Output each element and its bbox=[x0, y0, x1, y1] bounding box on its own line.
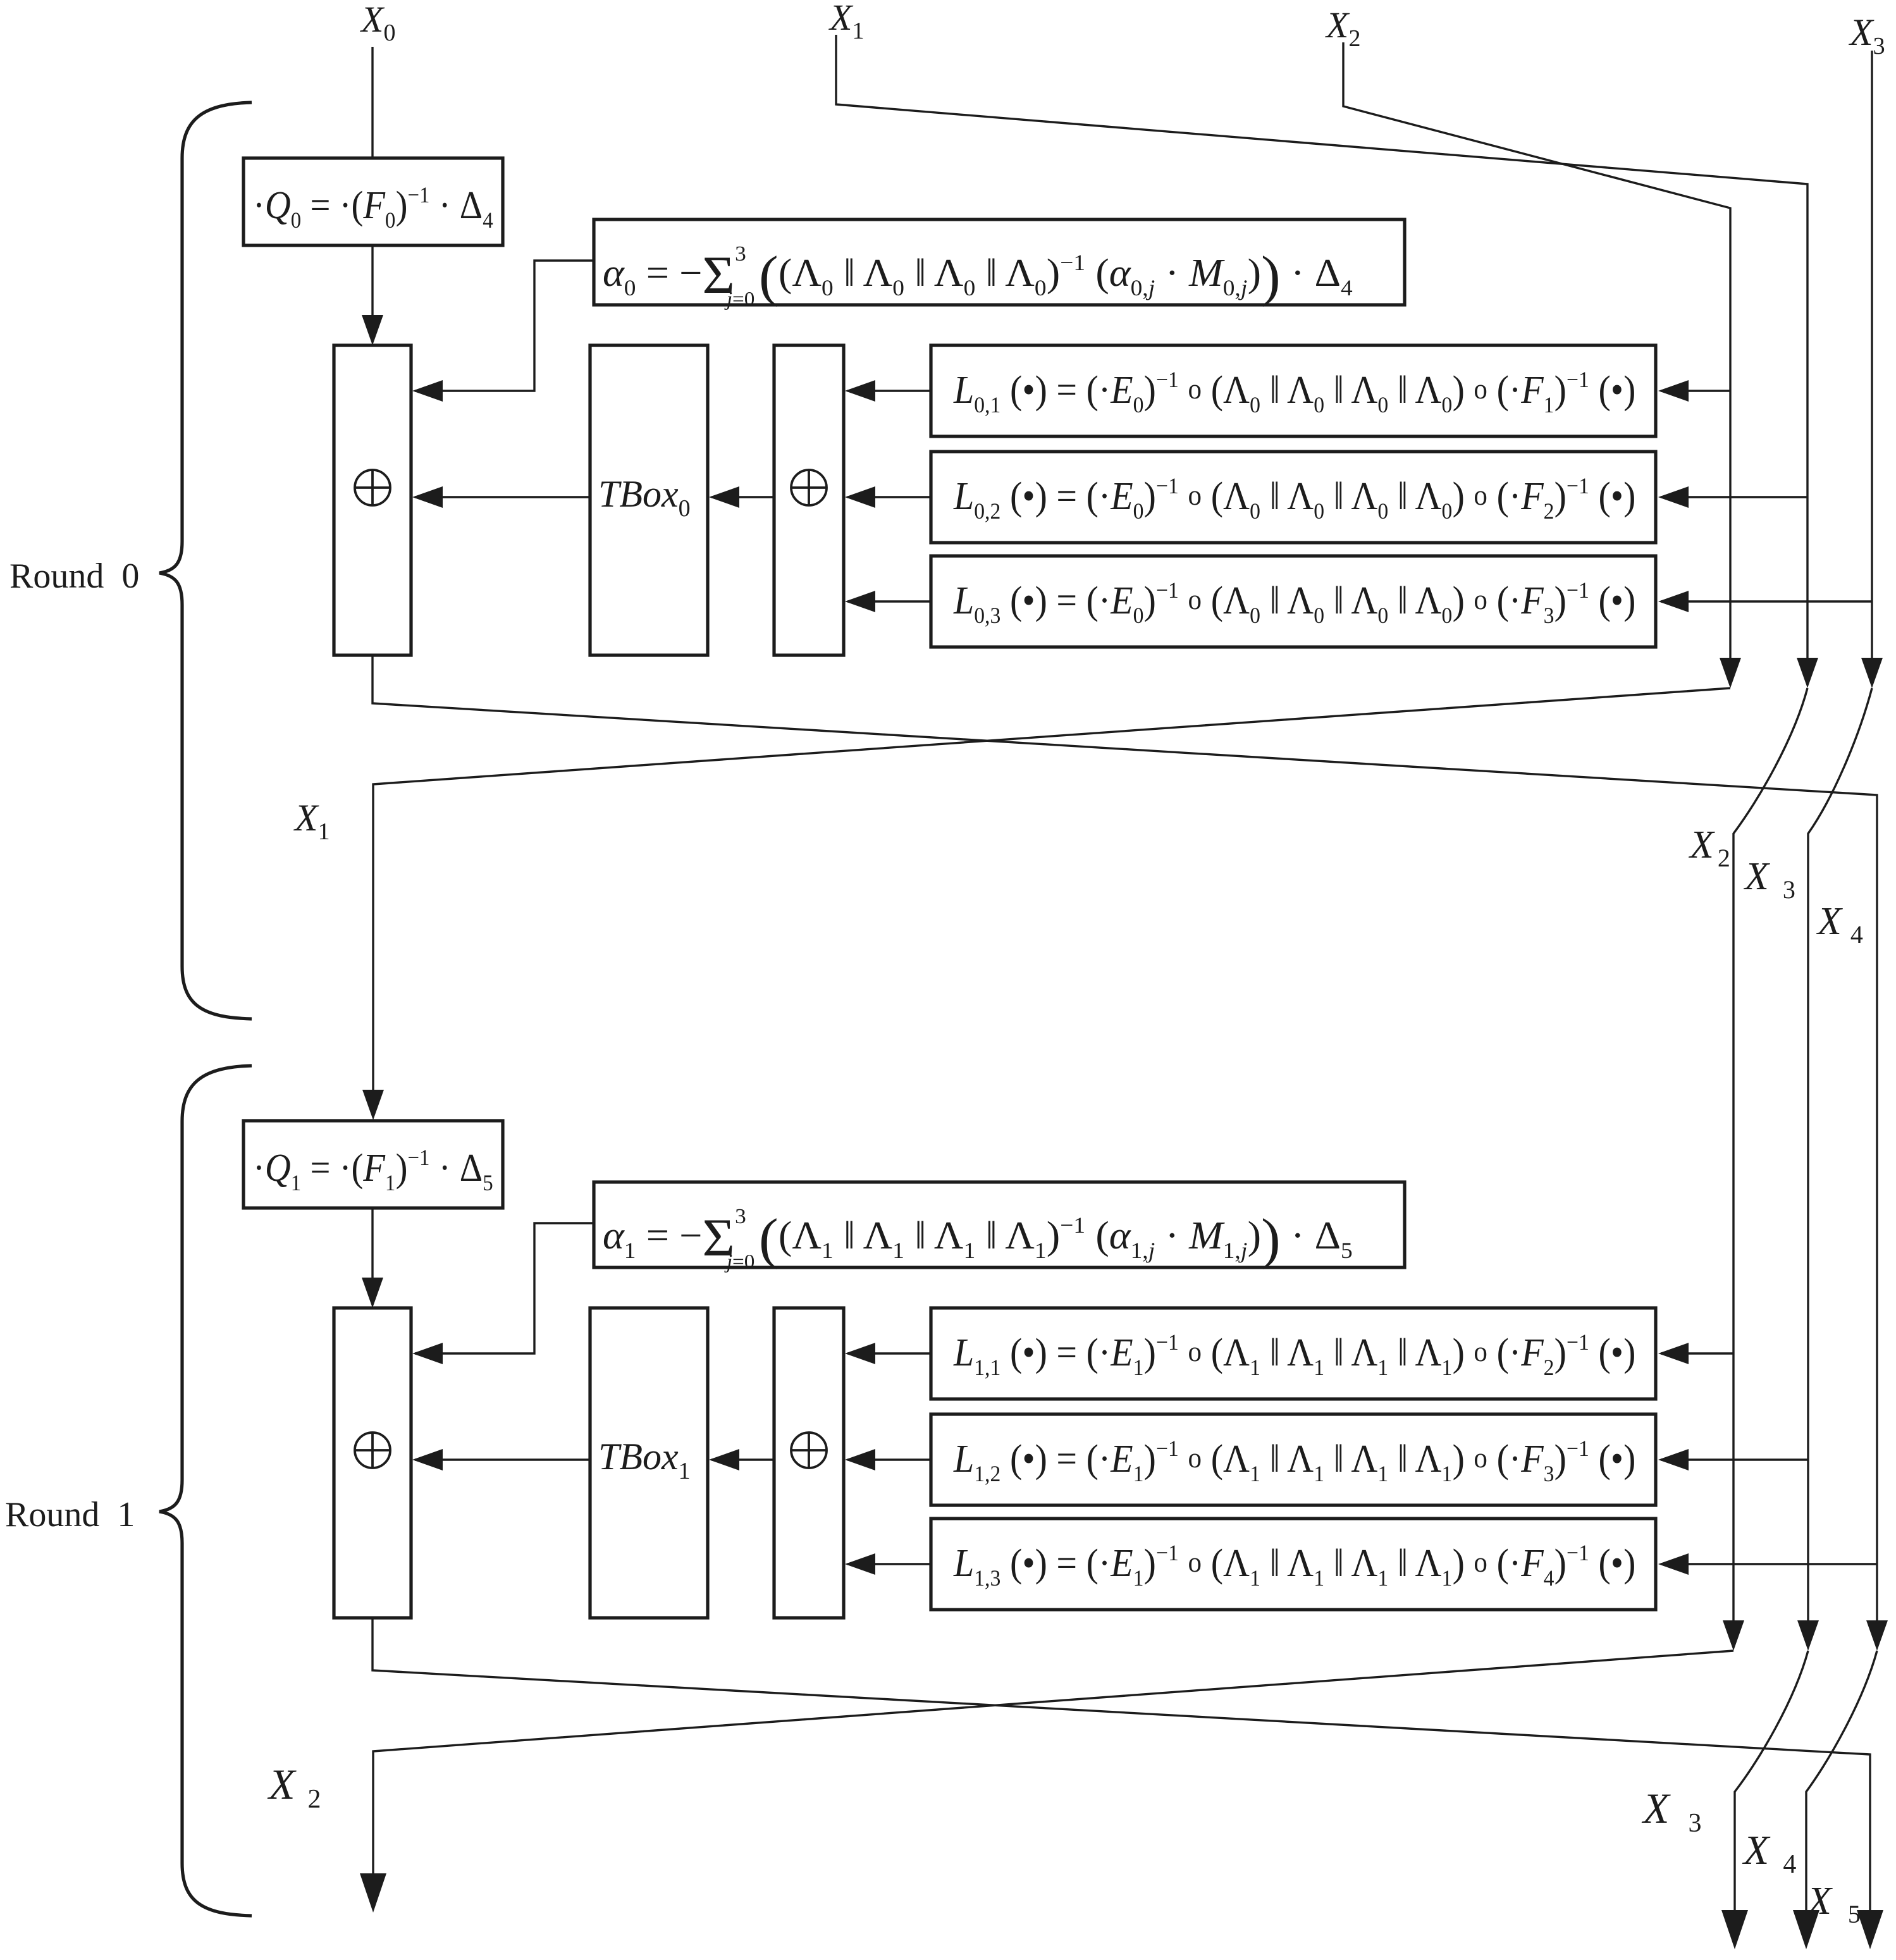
svg-text:·Q1 = ·(F1 )−1 · Δ5: ·Q1 = ·(F1 )−1 · Δ5 bbox=[253, 1145, 493, 1196]
xor column 2 R1 bbox=[774, 1308, 844, 1618]
svg-text:L0,1 (•) = (·E0 )−1 o (Λ0: L0,1 (•) = (·E0 )−1 o (Λ0 ‖ Λ0 ‖ Λ0 ‖ Λ0… bbox=[953, 367, 1635, 417]
wire input column to L0,2 bbox=[1661, 496, 1807, 498]
svg-text:Round 0: Round 0 bbox=[9, 557, 139, 596]
wire input column to L1,3 bbox=[1661, 1563, 1877, 1565]
box alpha1 formula bbox=[594, 1182, 1405, 1267]
wire L1,3 to xor column 2 bbox=[847, 1563, 931, 1565]
wire input column to L1,2 bbox=[1661, 1458, 1808, 1460]
box L0,1 formula bbox=[931, 345, 1656, 436]
wire column C R1 curve down to output bbox=[1806, 1651, 1877, 1919]
wire TBox0 to xor column 1 bbox=[415, 496, 590, 498]
box L1,2 formula bbox=[931, 1414, 1656, 1505]
wire L1,1 to xor column 2 bbox=[847, 1352, 931, 1354]
svg-text:TBox1: TBox1 bbox=[598, 1436, 691, 1484]
svg-text:L1,3 (•) = (·E1 )−1 o (Λ1: L1,3 (•) = (·E1 )−1 o (Λ1 ‖ Λ1 ‖ Λ1 ‖ Λ1… bbox=[953, 1540, 1635, 1591]
box TBox0 bbox=[590, 345, 708, 655]
arrow X3 wire head R0 bbox=[1861, 658, 1883, 688]
arrow column A head R1 bbox=[1723, 1620, 1744, 1651]
arrow output X5 head bbox=[1857, 1910, 1883, 1949]
wire xor1 R1 output crossing to rightmost output bbox=[372, 1618, 1870, 1919]
box L1,1 formula bbox=[931, 1308, 1656, 1399]
svg-text:Round 1: Round 1 bbox=[5, 1495, 135, 1534]
wire L0,1 to xor column 2 bbox=[847, 390, 931, 391]
svg-text:L1,1 (•) = (·E1 )−1 o (Λ1: L1,1 (•) = (·E1 )−1 o (Λ1 ‖ Λ1 ‖ Λ1 ‖ Λ1… bbox=[953, 1329, 1635, 1380]
arrow into Q1 bbox=[362, 1090, 384, 1120]
xor column 2 R0 bbox=[774, 345, 844, 655]
wire column A R1 crossing to left X2 output bbox=[373, 1651, 1733, 1882]
wire column A crossing to left X1 input of round 1 bbox=[373, 688, 1730, 1090]
brace Round 1 bbox=[159, 1066, 252, 1916]
wire input column to L0,3 bbox=[1661, 600, 1872, 602]
xor column 1 R1 bbox=[334, 1308, 411, 1618]
wire column B R1 curve down to output X4 bbox=[1735, 1651, 1808, 1919]
box L0,3 formula bbox=[931, 556, 1656, 647]
wire alpha0 to xor column 1 bbox=[415, 261, 594, 391]
wire X1 input diagonal to right column B bbox=[836, 35, 1807, 658]
wire L1,2 to xor column 2 bbox=[847, 1458, 931, 1460]
wire xor1 R0 output crossing to rightmost column bbox=[372, 655, 1877, 1620]
box Q1 formula bbox=[243, 1121, 503, 1208]
svg-text:·Q0 = ·(F0 )−1 · Δ4: ·Q0 = ·(F0 )−1 · Δ4 bbox=[253, 183, 493, 233]
box L1,3 formula bbox=[931, 1519, 1656, 1610]
xor column 1 R0 bbox=[334, 345, 411, 655]
box L0,2 formula bbox=[931, 452, 1656, 543]
arrow X2 wire head R0 bbox=[1720, 658, 1741, 688]
box alpha0 formula bbox=[594, 219, 1405, 305]
box Q0 formula bbox=[243, 158, 503, 245]
arrow output X4 head bbox=[1793, 1910, 1819, 1949]
wire xor column 2 to TBox0 bbox=[711, 496, 774, 498]
wire X0 input to Q0 bbox=[371, 47, 373, 158]
arrow output X2 head bbox=[360, 1873, 386, 1913]
arrow output X3 head bbox=[1721, 1910, 1748, 1949]
wire input column to L1,1 bbox=[1661, 1352, 1733, 1354]
wire L0,3 to xor column 2 bbox=[847, 600, 931, 602]
arrow X1 wire head R0 bbox=[1797, 658, 1818, 688]
wire X2 input diagonal to right column A bbox=[1343, 42, 1730, 658]
wire X3 input right column C bbox=[1871, 51, 1873, 658]
svg-text:TBox0: TBox0 bbox=[598, 473, 691, 522]
arrow rightmost column head R1 bbox=[1866, 1620, 1888, 1651]
wire Q0 to xor column R0 bbox=[371, 245, 373, 342]
arrow column B head R1 bbox=[1797, 1620, 1819, 1651]
svg-text:L0,3 (•) = (·E0 )−1 o (Λ0: L0,3 (•) = (·E0 )−1 o (Λ0 ‖ Λ0 ‖ Λ0 ‖ Λ0… bbox=[953, 577, 1635, 628]
box TBox1 bbox=[590, 1308, 708, 1618]
wire Q1 to xor column R1 bbox=[371, 1208, 373, 1304]
wire column B curve down to column A round 1 bbox=[1733, 688, 1807, 1620]
wire alpha1 to xor column 1 bbox=[415, 1223, 594, 1353]
brace Round 0 bbox=[159, 102, 252, 1019]
wire column C curve down to column B round 1 bbox=[1808, 688, 1872, 1620]
svg-text:L1,2 (•) = (·E1 )−1 o (Λ1: L1,2 (•) = (·E1 )−1 o (Λ1 ‖ Λ1 ‖ Λ1 ‖ Λ1… bbox=[953, 1436, 1635, 1486]
wire L0,2 to xor column 2 bbox=[847, 496, 931, 498]
svg-text:L0,2 (•) = (·E0 )−1 o (Λ0: L0,2 (•) = (·E0 )−1 o (Λ0 ‖ Λ0 ‖ Λ0 ‖ Λ0… bbox=[953, 473, 1635, 524]
wire input column to L0,1 bbox=[1661, 390, 1730, 391]
wire xor column 2 to TBox1 bbox=[711, 1458, 774, 1460]
wire TBox1 to xor column 1 bbox=[415, 1458, 590, 1460]
